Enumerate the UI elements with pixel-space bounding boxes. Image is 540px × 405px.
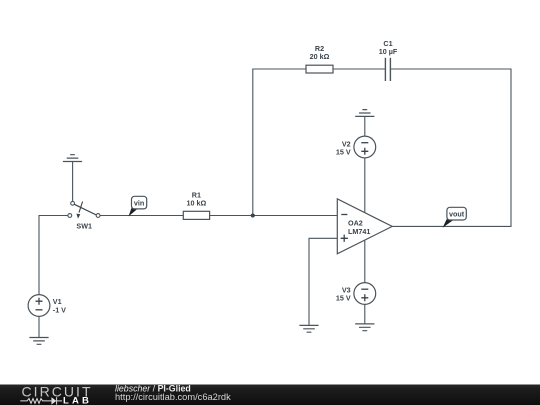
svg-text:vin: vin — [134, 198, 144, 207]
svg-text:LAB: LAB — [63, 396, 90, 405]
svg-text:LM741: LM741 — [348, 227, 370, 236]
svg-text:10 µF: 10 µF — [379, 47, 398, 56]
svg-text:-1 V: -1 V — [53, 305, 66, 314]
svg-text:15 V: 15 V — [336, 148, 351, 157]
svg-text:http://circuitlab.com/c6a2rdk: http://circuitlab.com/c6a2rdk — [115, 392, 231, 402]
svg-text:CIRCUIT: CIRCUIT — [22, 383, 92, 399]
svg-text:10 kΩ: 10 kΩ — [187, 199, 207, 208]
svg-text:vout: vout — [449, 209, 465, 218]
svg-text:SW1: SW1 — [76, 221, 92, 230]
svg-text:15 V: 15 V — [336, 294, 351, 303]
svg-text:20 kΩ: 20 kΩ — [310, 52, 330, 61]
